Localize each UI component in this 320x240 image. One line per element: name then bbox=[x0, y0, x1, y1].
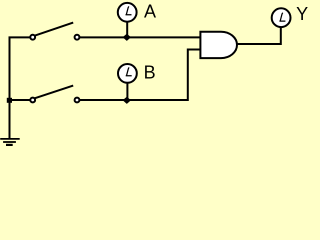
svg-text:Y: Y bbox=[296, 4, 308, 24]
svg-text:B: B bbox=[144, 63, 156, 83]
svg-text:A: A bbox=[144, 2, 156, 22]
